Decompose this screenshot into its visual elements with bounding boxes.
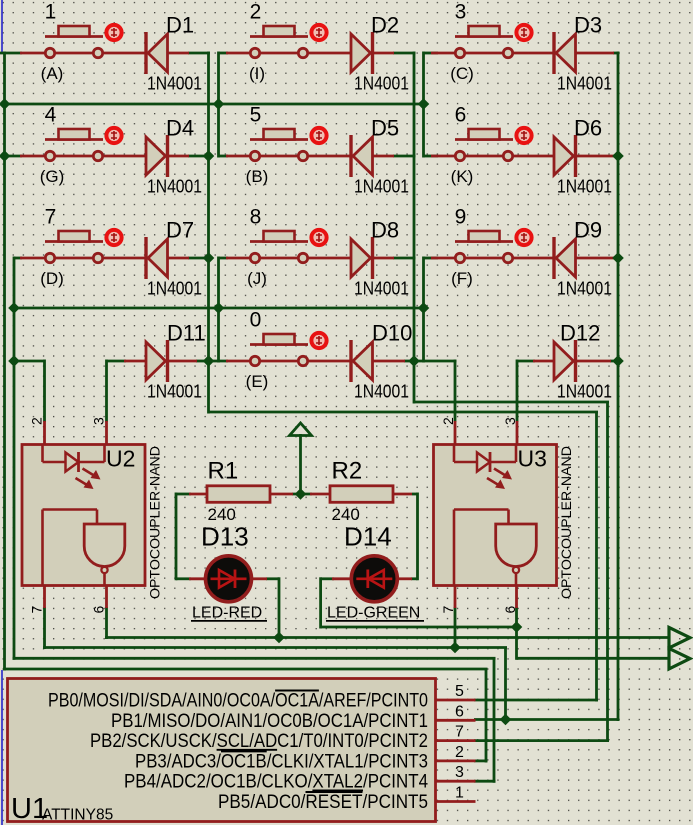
diode D3 1N4001 [554, 32, 576, 74]
svg-text:3: 3 [455, 1, 467, 24]
overline mark on PB0 [275, 690, 319, 692]
push button SW1 [45, 26, 103, 58]
push button SW5 [250, 129, 308, 161]
svg-text:D7: D7 [166, 218, 194, 243]
push button SW3 [455, 26, 513, 58]
diode D11 1N4001 [146, 340, 168, 382]
U3 gate input wire [454, 510, 509, 586]
wire red feeds row y=258 [20, 257, 45, 260]
wire bus net COL-B y=308 [13, 307, 426, 310]
svg-text:2: 2 [250, 1, 262, 24]
actuator toggle for SW5 [311, 128, 326, 143]
wire net COL-B to U2 pin2, y=361 [13, 360, 45, 363]
node junction (208.5,258) [203, 252, 215, 264]
wire D5 output segment [393, 155, 416, 158]
svg-text:(C): (C) [450, 64, 474, 83]
actuator toggle for SW0 [311, 333, 326, 348]
svg-text:4: 4 [45, 104, 57, 127]
diode D5 1N4001 [351, 135, 373, 177]
wire net COL-B vertical x=423.5 (button 9, U3 pin2) [422, 257, 425, 363]
wire PB3 row tail [474, 760, 488, 763]
resistor R1 240 [207, 486, 270, 503]
actuator toggle for SW6 [516, 128, 531, 143]
svg-text:1N4001: 1N4001 [557, 279, 612, 299]
diode D9 1N4001 [554, 237, 576, 279]
wire D1 output segment [188, 52, 210, 55]
U3 pin stubs (red) [454, 421, 457, 445]
svg-text:1N4001: 1N4001 [557, 382, 612, 402]
node junction (423.5,308) [418, 302, 430, 314]
wire D7 output segment [188, 257, 210, 260]
svg-text:2: 2 [29, 417, 45, 425]
wire net pin7s vertical to PB1 [504, 648, 507, 720]
svg-text:PB3/ADC3/OC1B/CLKI/XTAL1/PCINT: PB3/ADC3/OC1B/CLKI/XTAL1/PCINT3 [135, 751, 428, 772]
svg-text:1N4001: 1N4001 [354, 279, 409, 299]
op-amp U2 OPTOCOUPLER-NAND body [22, 445, 145, 586]
wire U2 pin6 drop [105, 607, 108, 639]
node junction (516.5,627) [511, 621, 523, 633]
actuator toggle for SW9 [516, 230, 531, 245]
svg-text:D5: D5 [371, 116, 399, 141]
svg-text:D8: D8 [371, 218, 399, 243]
node junction (14,361) [8, 355, 20, 367]
wire U3 pin7 drop [454, 607, 457, 648]
output terminal arrow 2 [669, 648, 690, 669]
svg-text:1N4001: 1N4001 [557, 74, 612, 94]
wire net COL-B vertical x=218.5 (buttons 8,0) [217, 257, 220, 363]
svg-text:0: 0 [250, 309, 262, 332]
diode D7 1N4001 [146, 237, 168, 279]
sheet border (blue, top-left) [1, 0, 3, 53]
wire R1-R2 middle segment [292, 493, 312, 496]
svg-text:PB1/MISO/DO/AIN1/OC0B/OC1A/PCI: PB1/MISO/DO/AIN1/OC0B/OC1A/PCINT1 [111, 711, 428, 732]
push button SW4 [45, 129, 103, 161]
svg-text:6: 6 [502, 606, 518, 614]
node junction (4.5,156) [0, 150, 10, 162]
wire net pin7s horizontal y=647.5 [43, 646, 507, 649]
resistor R2 240 [330, 486, 393, 503]
resistor R2 terminal stubs [310, 493, 332, 496]
push button SW2 [250, 26, 308, 58]
wire button-3 feed [424, 52, 439, 55]
svg-text:1N4001: 1N4001 [147, 177, 202, 197]
svg-text:R1: R1 [208, 458, 239, 485]
svg-text:(J): (J) [247, 269, 267, 288]
power terminal (up arrow) [290, 423, 312, 436]
wire net COL-B vertical x=14 [13, 257, 16, 660]
svg-text:(D): (D) [40, 269, 64, 288]
underline mark on PB2 [217, 749, 278, 751]
svg-text:8: 8 [250, 206, 262, 229]
svg-text:D12: D12 [560, 321, 600, 346]
wire D14 left drop x=320.6 [319, 577, 322, 628]
wire D13 right drop x=279 [278, 577, 281, 637]
svg-text:7: 7 [29, 606, 45, 614]
LED D14 pin stubs [332, 577, 351, 580]
wire D14 right segment [411, 577, 418, 580]
svg-text:2: 2 [455, 744, 464, 761]
wire net COL-A vertical x=4.5 [3, 52, 6, 671]
svg-text:3: 3 [91, 417, 107, 425]
wire button-8 feed [219, 257, 229, 260]
wire D11 output segment [196, 360, 210, 363]
push button SW8 [250, 231, 308, 263]
svg-text:1N4001: 1N4001 [557, 177, 612, 197]
wire D6 output segment [613, 155, 620, 158]
node junction (208.5,361) [203, 355, 215, 367]
node junction (414,361) [408, 355, 420, 367]
wire D12 anode segment [517, 360, 535, 363]
svg-text:(I): (I) [249, 64, 265, 83]
U3 internal NAND gate [496, 524, 537, 585]
wire D13 left segment [176, 577, 191, 580]
underline mark on PB4 [312, 789, 363, 791]
wire button-5 feed [219, 155, 229, 158]
LED D13 LED-RED [206, 556, 252, 602]
actuator toggle for SW2 [311, 25, 326, 40]
wire D4 output segment [188, 155, 210, 158]
U2 internal NAND gate [84, 524, 125, 585]
svg-text:1N4001: 1N4001 [354, 382, 409, 402]
overline mark on PB5 [306, 791, 363, 793]
node junction (505.5,719.5) [500, 714, 512, 726]
wire R1 left segment [176, 493, 191, 496]
op-amp U3 OPTOCOUPLER-NAND body [434, 445, 557, 586]
svg-text:1: 1 [45, 1, 57, 24]
wire D3 output segment [613, 52, 620, 55]
push button SW7 [45, 231, 103, 263]
power terminal stem [299, 434, 302, 494]
IC U1 ATTINY85 body [8, 679, 436, 822]
svg-text:1N4001: 1N4001 [354, 74, 409, 94]
wire net COL-B bottom horizontal y=658.3 [13, 657, 496, 660]
wire net LED1/arrow1 horizontal y=637.5 [105, 636, 669, 639]
wire row3 left segment [14, 257, 22, 260]
node junction (279,637.5) [273, 632, 285, 644]
actuator toggle for SW1 [106, 25, 121, 40]
node junction (618,156) [612, 150, 624, 162]
diode D8 1N4001 [351, 237, 373, 279]
actuator toggle for SW8 [311, 230, 326, 245]
node junction (208.5,156) [203, 150, 215, 162]
wire button-9 feed [424, 257, 439, 260]
wire row4 to U3 pin2, y=361 [414, 360, 457, 363]
svg-text:7: 7 [455, 724, 464, 741]
svg-text:1N4001: 1N4001 [147, 74, 202, 94]
svg-text:3: 3 [502, 417, 518, 425]
wire red feeds row y=53 [20, 52, 45, 55]
diode D4 1N4001 [146, 135, 168, 177]
resistor R1 terminal stubs [189, 493, 208, 496]
svg-text:D11: D11 [167, 321, 206, 346]
sheet border (blue, bottom-left) [1, 670, 3, 825]
U2 gate input wire [43, 510, 98, 586]
wire U3 pin3 riser [516, 360, 519, 423]
node junction (218.5,308) [213, 302, 225, 314]
node junction (14,308) [8, 302, 20, 314]
wire net COL-A vertical x=423.5 (buttons 3,6) [422, 52, 425, 158]
svg-text:PB5/ADC0/RESET/PCINT5: PB5/ADC0/RESET/PCINT5 [218, 792, 428, 813]
wire U2 pin2 riser [43, 360, 46, 423]
wire bus net COL-A y=104 [3, 103, 425, 106]
LED D13 pin stubs [189, 577, 206, 580]
svg-text:5: 5 [455, 683, 464, 700]
actuator toggle for SW4 [106, 128, 121, 143]
U2 LED emission arrows [76, 469, 101, 490]
wire net COL-A bottom horizontal y=669 [3, 668, 488, 671]
diode D2 1N4001 [351, 32, 373, 74]
wire net LED2/arrow2 horizontal y=658.3 [517, 657, 670, 660]
svg-text:U2: U2 [106, 446, 135, 472]
svg-text:D2: D2 [371, 13, 399, 38]
svg-text:(G): (G) [40, 167, 65, 186]
svg-text:(K): (K) [451, 167, 474, 186]
svg-text:R2: R2 [332, 458, 363, 485]
push button SW6 [455, 129, 513, 161]
wire net D3-group corner to PB1 row [506, 718, 620, 721]
svg-text:LED-GREEN: LED-GREEN [327, 605, 420, 622]
wire D10 output segment [404, 360, 416, 363]
svg-text:OPTOCOUPLER-NAND: OPTOCOUPLER-NAND [148, 446, 163, 599]
wire D11 anode segment [107, 360, 127, 363]
svg-text:D14: D14 [344, 522, 392, 552]
wire U3 pin2 riser [454, 360, 457, 423]
node junction (300.5,494) [295, 488, 307, 500]
wire D14 left segment [321, 577, 334, 580]
svg-text:5: 5 [250, 104, 262, 127]
svg-text:LED-RED: LED-RED [192, 605, 262, 622]
wire D2 output segment [393, 52, 416, 55]
svg-text:D9: D9 [574, 218, 602, 243]
svg-text:(F): (F) [451, 269, 473, 288]
wire red feeds row y=156 [20, 155, 45, 158]
node junction (618,258) [612, 252, 624, 264]
svg-text:D1: D1 [166, 13, 194, 38]
wire D9 output segment [613, 257, 620, 260]
svg-text:2: 2 [440, 417, 456, 425]
wire R2 right segment [412, 493, 418, 496]
svg-text:ATTINY85: ATTINY85 [42, 807, 113, 824]
svg-text:6: 6 [455, 703, 464, 720]
wire PB0 row to x=596.5 [474, 699, 598, 702]
svg-text:PB4/ADC2/OC1B/CLKO/XTAL2/PCINT: PB4/ADC2/OC1B/CLKO/XTAL2/PCINT4 [124, 772, 428, 793]
wire net LED2 horizontal y=627 [321, 626, 517, 629]
LED D14 LED-GREEN [351, 556, 397, 602]
wire D13 right segment [266, 577, 279, 580]
node junction (455,647.5) [449, 642, 461, 654]
svg-text:1N4001: 1N4001 [147, 382, 202, 402]
svg-text:D10: D10 [372, 321, 412, 346]
wire R1 left riser x=176 [175, 493, 178, 581]
wire button-2 feed [219, 52, 229, 55]
node junction (423.5,104) [418, 98, 430, 110]
wire R2 right riser x=417.5 [416, 493, 419, 581]
wire red feeds row4 y=361 [124, 360, 147, 363]
wire U3 pin6 drop [515, 607, 518, 627]
wire button-0 feed [209, 360, 229, 363]
U1 pin stubs (red) [436, 699, 476, 702]
svg-text:U3: U3 [518, 446, 547, 472]
svg-text:3: 3 [455, 764, 464, 781]
svg-text:(E): (E) [246, 372, 269, 391]
diode D12 1N4001 [554, 340, 576, 382]
wire net COL-A vertical x=218.5 (buttons 2,5) [217, 52, 220, 158]
svg-text:D4: D4 [166, 116, 194, 141]
svg-text:OPTOCOUPLER-NAND: OPTOCOUPLER-NAND [559, 446, 574, 599]
wire net D2/D5/D8/D10 vertical x=414 [413, 52, 416, 404]
wire PB1 row segment [474, 718, 506, 721]
wire D8 output segment [393, 257, 416, 260]
wire net LED2 vertical drop from U3 pin6 [515, 627, 518, 660]
wire net COL-A vertical to PB3 x=486 [485, 669, 488, 763]
svg-text:1N4001: 1N4001 [354, 177, 409, 197]
U2 pin stubs (red) [43, 421, 46, 445]
svg-text:7: 7 [440, 606, 456, 614]
diode D10 1N4001 [351, 340, 373, 382]
wire PB2 row to x=607.5 [474, 739, 609, 742]
node junction (218.5,104) [213, 98, 225, 110]
wire D12 output segment [610, 360, 620, 363]
diode D1 1N4001 [146, 32, 168, 74]
wire button-6 feed [424, 155, 439, 158]
wire PB4 row tail [474, 780, 496, 783]
svg-text:6: 6 [91, 606, 107, 614]
U3 LED emission arrows [487, 469, 512, 490]
node junction (618,361) [612, 355, 624, 367]
svg-text:6: 6 [455, 104, 467, 127]
wire row2 left segment [5, 155, 23, 158]
wire net D2-group vertical x=607.5 [606, 402, 609, 742]
node junction (4.5,104) [0, 98, 10, 110]
svg-text:(B): (B) [246, 167, 269, 186]
wire net D1-group vertical x=596.5 [595, 412, 598, 702]
overline mark on PB3 [221, 750, 267, 752]
svg-text:9: 9 [455, 206, 467, 229]
svg-text:PB0/MOSI/DI/SDA/AIN0/OC0A/OC1A: PB0/MOSI/DI/SDA/AIN0/OC0A/OC1A/AREF/PCIN… [48, 691, 428, 712]
svg-text:D6: D6 [574, 116, 602, 141]
wire U2 pin3 riser from D11 anode [105, 360, 108, 423]
wire net COL-B vertical to PB4 x=494 [493, 658, 496, 783]
svg-text:7: 7 [45, 206, 57, 229]
svg-text:D3: D3 [574, 13, 602, 38]
wire U2 pin7 drop [43, 607, 46, 649]
output terminal arrow 1 [669, 627, 690, 648]
diode D6 1N4001 [554, 135, 576, 177]
push button SW0 [250, 334, 308, 366]
push button SW9 [455, 231, 513, 263]
wire net D3/D6/D9/D12 vertical x=618 [617, 52, 620, 722]
svg-text:1N4001: 1N4001 [147, 279, 202, 299]
U2 internal LED [43, 445, 105, 472]
svg-text:1: 1 [455, 785, 464, 802]
actuator toggle for SW3 [516, 25, 531, 40]
wire net D2-group horizontal y=402 [414, 401, 609, 404]
svg-text:D13: D13 [201, 522, 249, 552]
actuator toggle for SW7 [106, 230, 121, 245]
wire net D1/D4/D7/D11 vertical x=208.5 [207, 52, 210, 414]
wire net D1-group horizontal y=412 [209, 411, 599, 414]
svg-text:(A): (A) [41, 64, 64, 83]
wire row1 left segment [0, 52, 22, 55]
U3 internal LED [454, 445, 516, 472]
